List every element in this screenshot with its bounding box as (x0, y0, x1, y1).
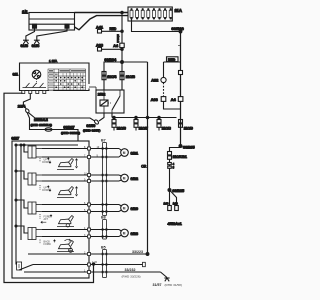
fuse 7 (164, 9, 167, 20)
ground splice 31/56 (83, 119, 100, 132)
wire to motor 6/23 (91, 230, 122, 237)
fuse 5 (152, 9, 155, 20)
wire A41 to node (102, 27, 124, 33)
svg-text:(RHD 33/232): (RHD 33/232) (61, 131, 80, 135)
node bus/11C7 (135, 116, 137, 118)
svg-text:11A: 11A (175, 8, 182, 13)
svg-text:FORW: FORW (44, 243, 52, 246)
svg-text:B5: B5 (101, 246, 106, 250)
wire battery feed (lower, rising to fusebox) (75, 16, 129, 30)
fuse 1 (130, 9, 133, 20)
node bus/11C6 (113, 116, 115, 118)
icon unit4 (40, 239, 74, 252)
strip B8 pins (102, 228, 108, 237)
wire terminal 30 out (1:30) (88, 260, 146, 267)
strip B7 pins (102, 147, 108, 212)
wire relay output to bus (111, 113, 113, 118)
bottom memory switch inside box (17, 262, 88, 270)
svg-text:11C/7: 11C/7 (139, 126, 148, 130)
wire ignition pin to 28/4 (23, 94, 30, 110)
pins 4/5 (168, 162, 175, 170)
svg-text:28/4: 28/4 (18, 105, 26, 109)
relay 2/32 (96, 90, 124, 113)
wire switch1 out2 (42, 156, 88, 158)
svg-text:AFT: AFT (44, 218, 49, 221)
switch 3 (fore/aft) (15, 199, 42, 214)
svg-text:6/21: 6/21 (131, 150, 139, 155)
ignition position table (48, 69, 86, 90)
pin numbers (84, 146, 100, 272)
svg-text:11C/4: 11C/4 (107, 75, 116, 79)
wire relay coil to ground splice (99, 113, 104, 121)
svg-text:DOWN: DOWN (42, 189, 50, 192)
wire switch1 out1 (42, 148, 88, 150)
wire node 33/234 to OR wire (122, 61, 148, 63)
connector A28 (96, 43, 103, 51)
svg-text:31/8: 31/8 (32, 44, 39, 48)
svg-text:M: M (123, 177, 126, 181)
wire to motor 6/20 (91, 205, 122, 212)
svg-text:DOWN: DOWN (42, 161, 50, 164)
connector A33 (151, 97, 166, 103)
svg-text:6/20: 6/20 (131, 206, 139, 211)
svg-text:D: D (117, 39, 119, 43)
svg-text:M: M (123, 231, 126, 235)
connector strip B5 (101, 246, 106, 278)
table marks (49, 70, 86, 91)
supply rails inside box (15, 144, 78, 265)
wire A28 to node (102, 48, 124, 50)
wire label RED (vertical) (117, 33, 119, 43)
seat switch console 3/27 box (12, 136, 90, 278)
wire switch4 out2 (42, 236, 88, 238)
wire 33/232 to ground (24, 268, 167, 279)
svg-text:11C/8: 11C/8 (162, 126, 171, 130)
splice oval 33/227 (45, 126, 80, 136)
node bus/11C8 (158, 116, 160, 118)
svg-text:11C/9: 11C/9 (184, 126, 193, 130)
connector A41 (96, 26, 103, 33)
wire to motor 6/22 (91, 175, 122, 181)
pins box edge u4 (88, 228, 91, 238)
splice 28/4 (18, 105, 30, 114)
svg-text:(RHD 10/115.2): (RHD 10/115.2) (31, 123, 52, 127)
svg-text:1 15A: 1 15A (49, 59, 58, 63)
svg-text:11C/3: 11C/3 (126, 75, 135, 79)
svg-text:4/52A:1: 4/52A:1 (168, 221, 183, 226)
pin on main feed (179, 71, 183, 75)
wire main feed vertical (180, 32, 182, 147)
wire to 11C/CB1 (170, 146, 181, 190)
node bus/OR (146, 116, 148, 118)
svg-text:3/27: 3/27 (12, 136, 21, 141)
wire switch4 out1 (42, 229, 88, 231)
wire switch3 out1 (42, 204, 88, 206)
connector 11C/6 (112, 118, 126, 131)
connector A4 (on main feed) (171, 97, 183, 103)
pins box edge u3 (88, 203, 91, 213)
wire bus 11C row (112, 117, 177, 119)
svg-text:33/234: 33/234 (105, 58, 118, 62)
wire OR vertical (141, 62, 148, 255)
wire 28/4 to seat switch box (27, 113, 78, 141)
svg-text:31/57: 31/57 (153, 283, 162, 287)
fuse 8 (169, 9, 172, 20)
wire switch2 out2 (42, 180, 88, 182)
connector strip B8 (101, 216, 106, 239)
connector A32 (151, 77, 166, 82)
svg-text:(RHD 33/226): (RHD 33/226) (122, 274, 141, 278)
svg-text:OR: OR (141, 165, 147, 169)
connector 11C/3 (120, 72, 135, 80)
switch 1 (front height) (23, 144, 42, 158)
svg-text:33/232: 33/232 (125, 268, 136, 272)
motor 6/20 (121, 204, 138, 212)
node at bottom loop (92, 263, 94, 265)
svg-text:RED: RED (168, 58, 176, 62)
wire dashed segment (163, 83, 165, 97)
wire ignition terminal 30 down left edge and along bottom (4, 93, 94, 282)
svg-text:3/1: 3/1 (13, 72, 19, 77)
fuse 6 (158, 9, 161, 20)
svg-text:10/114.2: 10/114.2 (34, 118, 48, 122)
svg-text:1:30: 1:30 (164, 202, 169, 205)
fuse 4 (147, 9, 150, 20)
battery 1/1 (22, 10, 75, 30)
motor 6/21 (121, 149, 139, 157)
svg-text:A33: A33 (151, 98, 158, 102)
fuse 3 (141, 9, 144, 20)
svg-text:33/227: 33/227 (64, 126, 75, 130)
svg-text:M: M (123, 207, 126, 211)
svg-text:(RHD 31/57): (RHD 31/57) (83, 129, 100, 133)
svg-text:33/235: 33/235 (183, 146, 195, 150)
svg-text:6/23: 6/23 (131, 231, 139, 236)
svg-text:33/225: 33/225 (173, 189, 185, 193)
wire node to 11C/4 branch (104, 62, 122, 90)
connector 11C/8 (157, 118, 171, 131)
wire node down to 11C/3 (121, 62, 123, 90)
svg-text:33/223: 33/223 (132, 250, 143, 254)
wire fuse1 to node 33/136 (132, 18, 181, 31)
wire B+ tap down (x=122) (121, 11, 123, 62)
svg-text:B7: B7 (101, 139, 106, 143)
svg-text:RED: RED (110, 27, 117, 31)
fusebox 11A (128, 7, 182, 21)
wire switch3 out2 (42, 211, 88, 213)
wires to 4/52A pins (164, 190, 179, 211)
svg-text:(RHD 31/58): (RHD 31/58) (165, 283, 182, 287)
switch 2 (rear height) (15, 170, 42, 185)
svg-text:11C/6: 11C/6 (117, 126, 126, 130)
svg-text:33/136: 33/136 (172, 26, 185, 31)
svg-text:A28: A28 (96, 43, 103, 47)
pins box edge u1 (88, 147, 91, 159)
ignition switch symbol (32, 70, 41, 84)
ground 31/57 (153, 278, 182, 287)
wire battery feed (top) (75, 12, 129, 14)
wire to motor 6/21 (91, 149, 122, 158)
node 33/136 (172, 26, 185, 33)
ground 31/8 (32, 40, 40, 48)
wire switch2 out1 (42, 174, 88, 176)
strip B5 pins (102, 253, 108, 273)
icon unit2 (40, 185, 78, 198)
connector 11C/CB1 (168, 152, 187, 160)
switch 4 (backrest) (15, 225, 42, 240)
svg-text:11C/CB1: 11C/CB1 (173, 155, 187, 159)
wire A32/A33 loop (163, 62, 165, 77)
wire 33/223 (28, 250, 149, 256)
svg-text:6/22: 6/22 (131, 176, 139, 181)
svg-text:1/1: 1/1 (22, 10, 28, 15)
wire battery right terminal to ground (37, 28, 67, 40)
icon unit3 (FORE/AFT) (40, 214, 74, 227)
svg-text:A32: A32 (151, 79, 158, 83)
motor 6/23 (121, 229, 139, 237)
svg-text:1:30: 1:30 (92, 260, 98, 264)
svg-text:B8: B8 (101, 216, 106, 220)
fuse 2 (136, 9, 139, 20)
ignition contacts (22, 83, 46, 94)
svg-text:31/3: 31/3 (21, 44, 28, 48)
pins box edge u2 (88, 174, 91, 183)
icon unit1 (UP/DOWN seat) (40, 158, 78, 170)
ground 31/3 (21, 40, 29, 48)
svg-text:1:30: 1:30 (173, 202, 178, 205)
connector 11C/9 (on main feed) (179, 120, 193, 131)
wire 28/4 to ground splice 31/56 (28, 112, 95, 121)
node 33/234 (105, 58, 124, 63)
svg-text:M: M (123, 151, 126, 155)
connector A4 (on B+ tap) (113, 43, 124, 48)
svg-text:31/56: 31/56 (87, 124, 96, 128)
wire loop bottom (164, 101, 181, 109)
wire branch to A32 loop + label RED (164, 57, 181, 62)
connector 11C/4 (102, 72, 116, 80)
connector strip B7 (101, 139, 106, 216)
ignition switch 3/1 box (13, 58, 96, 90)
node 33/225 (168, 189, 184, 193)
motor 6/22 (121, 174, 139, 182)
connector 11C/7 (134, 118, 148, 131)
wire label 10/114.2 (31, 118, 52, 127)
wire battery left terminal to ground (26, 28, 35, 40)
node 33/235 (179, 145, 195, 150)
